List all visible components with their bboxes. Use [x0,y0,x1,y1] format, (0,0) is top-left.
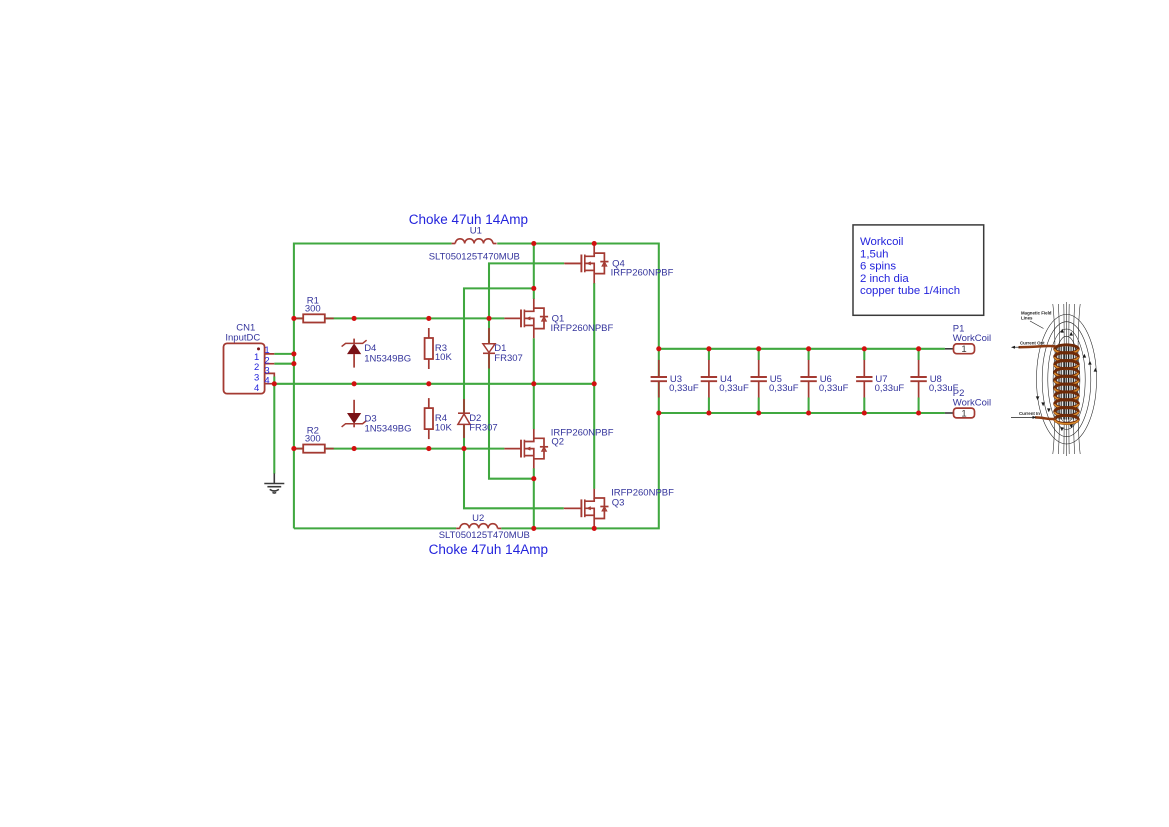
wire CN1 pin1 wire [274,353,294,355]
wire U4 column lower [708,398,710,414]
wire cap bank bottom rail [659,412,945,414]
coil lead current-in (bottom) [1035,417,1056,419]
resistor R2 [294,445,333,453]
ground [264,473,284,493]
svg-text:4: 4 [254,383,259,394]
svg-text:Current In: Current In [1019,411,1040,416]
inductor U2 (choke) [456,524,501,529]
junction top rail / Q1 column [531,241,536,246]
axial field lines [1053,302,1080,456]
svg-text:U2: U2 [472,513,484,524]
svg-text:0,33uF: 0,33uF [875,383,905,394]
wire CN1 pin3 elbow wire [273,377,275,384]
junction gate rail / D4 [352,316,357,321]
wire Q1 gate rail [294,317,505,319]
resistor R1 [294,314,333,322]
junction mid rail / R3-R4 [426,381,431,386]
svg-text:U1: U1 [470,226,482,237]
svg-text:6 spins: 6 spins [860,261,896,273]
wire Q4 source to mid rail to Q3 drain [593,283,595,489]
capacitor U8 [910,360,926,398]
junction cap top rail / U3 [656,346,661,351]
capacitor U6 [800,360,816,398]
current-in annotation arrow [1011,416,1033,418]
svg-text:SLT050125T470MUB: SLT050125T470MUB [429,252,520,263]
junction cap top rail / U7 [862,346,867,351]
diode D1 [483,328,495,369]
wire left rail + top rail left segment [294,244,452,529]
wire Q4 gate red stub [564,262,582,264]
capacitor U3 [651,360,667,398]
svg-text:Workcoil: Workcoil [860,236,903,248]
wire Q4 gate net: gate rail + D1 column + Q2 source link [489,263,564,478]
svg-text:4: 4 [264,375,269,386]
junction bottom rail / Q2 source [531,526,536,531]
wire D2 column net: Q1 drain link + column + Q3 gate rail [464,288,564,508]
svg-text:FR307: FR307 [469,423,498,434]
junction cap bottom rail / U8 [916,410,921,415]
wire Q1 source to mid rail to Q2 drain [533,338,535,429]
svg-text:IRFP260NPBF: IRFP260NPBF [551,323,614,334]
inductor U1 (choke) [452,239,497,244]
wire U8 column lower [918,398,920,414]
junction Q2 source / D1 link [531,476,536,481]
junction pin4 / mid rail / ground [272,381,277,386]
svg-text:Current Out: Current Out [1020,341,1045,346]
magnetic field line ellipses [1037,314,1097,444]
svg-text:WorkCoil: WorkCoil [953,333,991,344]
junction gate rail / D1 [486,316,491,321]
wire CN1 pin2 wire [274,363,294,365]
junction Q1 drain / D2 link [531,286,536,291]
wire U4 column upper [708,349,710,360]
junction gate rail / R3 [426,316,431,321]
junction cap bottom rail / U7 [862,410,867,415]
coil lead current-out (top) [1019,346,1056,347]
connector P2 WorkCoil [945,408,975,419]
junction pin2 / left rail [291,361,296,366]
svg-text:2 inch dia: 2 inch dia [860,273,909,285]
svg-text:0,33uF: 0,33uF [719,383,749,394]
capacitor U7 [856,360,872,398]
junction cap top rail / U8 [916,346,921,351]
svg-text:0,33uF: 0,33uF [769,383,799,394]
svg-text:Lines: Lines [1021,316,1033,321]
svg-text:Q2: Q2 [551,437,564,448]
junction cap bottom rail / U4 [706,410,711,415]
junction cap top rail / U4 [706,346,711,351]
svg-text:Q3: Q3 [612,498,625,509]
current-out annotation arrow [1014,346,1021,348]
svg-text:IRFP260NPBF: IRFP260NPBF [611,268,674,279]
field direction arrowheads [1036,329,1097,431]
svg-text:1,5uh: 1,5uh [860,248,889,260]
svg-text:Choke 47uh 14Amp: Choke 47uh 14Amp [409,212,528,227]
capacitor U5 [751,360,767,398]
junction mid rail / Q4-Q3 [592,381,597,386]
svg-text:FR307: FR307 [494,353,523,364]
wire Q3 gate red stub [564,507,582,509]
wire top rail right segment + right rail upper [497,244,659,378]
wire Q2 source to bottom rail [533,468,535,528]
junction cap bottom rail / U6 [806,410,811,415]
wire U7 column lower [863,398,865,414]
wire U5 column upper [758,349,760,360]
wire mid rail (pins 3-4 net) [274,383,594,385]
workcoil illustration (solenoid with magnetic field lines) [1011,302,1097,456]
svg-text:10K: 10K [435,423,453,434]
resistor R4 [425,398,433,439]
transistor Q2 [504,429,548,468]
junction cap bottom rail / U5 [756,410,761,415]
transistor Q4 [565,244,609,283]
junction cap top rail / U5 [756,346,761,351]
junction cap top rail / U6 [806,346,811,351]
wire right rail lower + bottom rail right segment [501,381,659,528]
wire cap bank top rail [659,348,945,350]
junction Q2 gate rail / R4 [426,446,431,451]
junction Q2 gate rail / D3 [352,446,357,451]
wire Q1/Q2 column upper (top rail to Q1 drain) [533,244,535,300]
svg-text:SLT050125T470MUB: SLT050125T470MUB [439,530,530,541]
wire U6 column lower [808,398,810,414]
junction bottom rail / Q3 source [592,526,597,531]
svg-text:Choke 47uh 14Amp: Choke 47uh 14Amp [429,542,548,557]
zener diode D4 [342,339,367,368]
wire bottom rail left segment [294,527,456,529]
connector P1 WorkCoil [945,344,975,355]
coil interior hatching [1055,347,1077,420]
svg-text:D4: D4 [364,343,376,354]
wire U8 column upper [918,349,920,360]
junction mid rail / D4-D3 [352,381,357,386]
wire U6 column upper [808,349,810,360]
svg-text:1N5349BG: 1N5349BG [364,353,411,364]
svg-text:WorkCoil: WorkCoil [953,397,991,408]
wire Q2 gate rail [294,448,505,450]
junction cap bottom rail / U3 [656,410,661,415]
junction gate rail / left rail (R1) [291,316,296,321]
svg-text:0,33uF: 0,33uF [819,383,849,394]
svg-text:10K: 10K [435,352,453,363]
connector CN1 [224,343,275,393]
capacitor U4 [701,360,717,398]
junction pin1 / left rail [291,351,296,356]
svg-text:300: 300 [305,434,321,445]
transistor Q3 [565,489,609,528]
wire U5 column lower [758,398,760,414]
zener diode D3 [342,400,367,428]
svg-text:1N5349BG: 1N5349BG [365,423,412,434]
diode D2 [458,399,470,438]
svg-text:copper tube 1/4inch: copper tube 1/4inch [860,285,960,297]
junction top rail / Q4 drain [592,241,597,246]
svg-text:300: 300 [305,303,321,314]
svg-text:InputDC: InputDC [225,333,260,344]
junction Q2 gate rail / D2 [461,446,466,451]
junction mid rail / Q1-Q2 [531,381,536,386]
junction Q2 gate rail / left rail (R2) [291,446,296,451]
wire U7 column upper [863,349,865,360]
coil turns (copper tube) [1055,345,1079,424]
wire ground drop wire [273,384,275,474]
note box Workcoil [853,225,984,315]
svg-text:0,33uF: 0,33uF [669,383,699,394]
transistor Q1 [504,299,548,338]
resistor R3 [425,328,433,369]
